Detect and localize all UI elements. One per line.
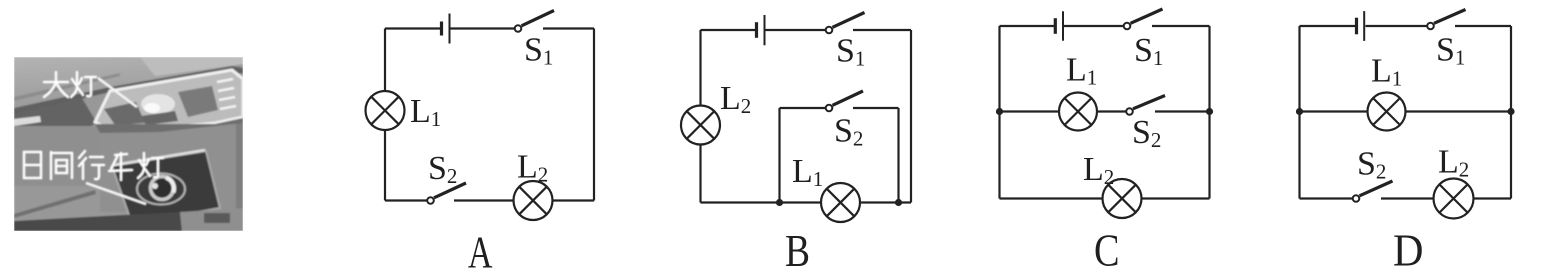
wire D bottom-mid [1381, 197, 1434, 199]
text zone mid gray [14, 126, 126, 186]
wire D top-mid [1366, 25, 1428, 27]
svg-text:D: D [1393, 225, 1424, 272]
wire B bottom-left [701, 201, 822, 203]
wire B top-right [853, 29, 911, 31]
wire B right side [910, 30, 912, 203]
switch S2 blade (D) [1360, 181, 1393, 196]
switch S1 pivot [515, 25, 522, 32]
wire C middle-left [1000, 110, 1060, 112]
circuit option D [1296, 10, 1515, 219]
wire A bottom-left [385, 199, 427, 201]
headlight assembly [95, 70, 243, 129]
hood crease line [14, 73, 120, 101]
junction node left (C) [996, 108, 1003, 115]
switch S2 pivot [427, 197, 434, 204]
dark hood gap band [14, 66, 243, 115]
switch S2 pivot (D) [1353, 195, 1360, 202]
headlight projector hotspot [144, 103, 160, 113]
wire B top-left [701, 29, 756, 31]
headlight inner mid patch right [178, 86, 218, 117]
headlight bright blob [141, 94, 175, 114]
wire A top-right [543, 27, 594, 29]
switch S2 pivot (C) [1126, 108, 1133, 115]
switch S1 blade [522, 11, 555, 26]
bottom dark strip [14, 212, 182, 231]
bumper right zone [100, 122, 243, 212]
bottom-left crease [14, 190, 96, 218]
label 日间行车灯 [24, 151, 163, 180]
wire C middle-right [1155, 110, 1210, 112]
wire D top-right [1455, 25, 1511, 27]
hood upper area [14, 57, 243, 111]
wire B left lower [699, 145, 701, 203]
lamp L2 (D) [1434, 179, 1474, 219]
headlight inner dark left [104, 102, 145, 125]
lamp L2 [514, 181, 553, 220]
间 [50, 152, 52, 179]
wire B inner branch top-right [853, 107, 899, 109]
leader line to fog lamp [86, 183, 146, 204]
wire B inner branch right [897, 108, 899, 203]
circuit option C [996, 9, 1213, 218]
lamp L1 (C) [1059, 93, 1097, 131]
switch S1 pivot (D) [1427, 23, 1434, 30]
wire C middle-mid [1097, 110, 1126, 112]
lamp L2 (B) [681, 106, 720, 145]
junction node right (B) [895, 199, 902, 206]
wire B top-mid [766, 29, 826, 31]
switch S1 blade (D) [1434, 10, 1466, 24]
lamp L1 (D) [1368, 93, 1406, 131]
wire D middle-left [1300, 110, 1368, 112]
fog lamp outer ring [137, 174, 185, 205]
wire C bottom-right [1142, 197, 1210, 199]
wire C bottom-left [1000, 197, 1103, 199]
wire B inner branch left [778, 108, 780, 203]
lamp L1 (B) [821, 183, 860, 222]
battery A negative plate [440, 22, 443, 36]
wire C top-left [1000, 25, 1055, 27]
under-headlight shadow [95, 118, 243, 133]
photo: car headlight close-up [14, 57, 243, 231]
fog lamp recess top highlight [114, 150, 205, 165]
wire A bottom-right [553, 199, 595, 201]
wire D middle-right [1406, 110, 1512, 112]
wire C top-mid [1064, 25, 1124, 27]
battery C negative plate [1054, 18, 1057, 34]
wire D bottom-left [1300, 197, 1353, 199]
bottom right gray [180, 208, 243, 231]
行 [79, 151, 85, 158]
right dark patch [204, 213, 230, 223]
switch S1 blade (C) [1131, 9, 1163, 23]
fog lamp chrome crescent [166, 178, 174, 193]
wire B bottom-right [860, 201, 911, 203]
battery D positive plate [1363, 11, 1365, 41]
switch S1 pivot (C) [1124, 23, 1131, 30]
battery A positive plate [449, 14, 451, 44]
LED stripes [217, 79, 236, 109]
headlight dark wedge under blob [141, 111, 178, 125]
battery C positive plate [1062, 11, 1064, 40]
lamp L2 (C) [1103, 179, 1142, 218]
switch S2 blade (B) [833, 91, 864, 105]
日 [24, 152, 41, 178]
wire B inner branch top-left [780, 107, 826, 109]
wire D bottom-right [1474, 197, 1512, 199]
fog lamp glint [152, 183, 158, 189]
wire A top-mid [451, 27, 515, 29]
junction node right (C) [1206, 108, 1213, 115]
switch S1 blade (B) [833, 13, 865, 28]
switch S2 blade (C) [1133, 96, 1165, 109]
battery D negative plate [1355, 18, 1358, 35]
circuit option A [366, 11, 595, 221]
fog lamp chrome ring [151, 177, 174, 200]
wire C left side [998, 26, 1000, 199]
battery B positive plate [764, 15, 766, 45]
hood top-right light wedge [140, 57, 243, 76]
circuit option B [681, 13, 911, 223]
svg-text:A: A [468, 227, 493, 272]
svg-text:C: C [1094, 225, 1120, 272]
left dark region [14, 98, 97, 147]
fog lamp recess [112, 151, 220, 224]
label 大 [44, 72, 68, 97]
photo base [14, 57, 243, 231]
leader line to headlight [98, 78, 137, 107]
lamp L1 [366, 91, 405, 130]
switch S2 blade [434, 183, 466, 198]
wire B left upper [699, 30, 701, 106]
battery B negative plate [755, 22, 758, 38]
wire A left lower [384, 130, 386, 201]
switch S2 pivot (B) [826, 105, 833, 112]
wire D left side [1298, 26, 1300, 199]
junction node left (D) [1296, 108, 1303, 115]
wire A left upper [384, 29, 386, 92]
wire A bottom-mid [454, 199, 514, 201]
svg-text:B: B [785, 226, 810, 272]
wire A right side [593, 29, 595, 201]
wire A top-left [385, 27, 440, 29]
left bright dash [14, 116, 41, 126]
junction node left (B) [776, 199, 783, 206]
车 [115, 154, 127, 155]
junction node right (D) [1507, 108, 1514, 115]
switch S1 pivot (B) [826, 27, 833, 34]
wire C right side [1208, 26, 1210, 199]
right dark column [236, 118, 243, 212]
wire D top-left [1300, 25, 1356, 27]
wire C top-right [1152, 25, 1210, 27]
label 灯 [71, 72, 96, 97]
wire D right side [1510, 26, 1512, 199]
灯 [139, 160, 143, 166]
